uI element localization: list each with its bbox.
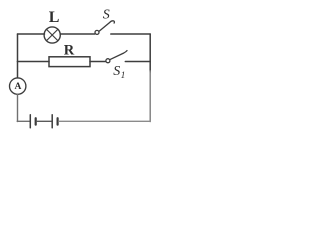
wire right vertical lower <box>149 71 151 122</box>
wire right vertical upper <box>149 34 151 72</box>
svg-text:L: L <box>49 9 60 26</box>
svg-text:A: A <box>15 82 22 92</box>
wire between battery cells <box>37 120 51 122</box>
wire switch S1 to right vertical <box>125 61 150 63</box>
wire left vertical middle (branch node to ammeter) <box>17 62 19 78</box>
wire left vertical upper (corner to branch node) <box>17 34 19 62</box>
wire ammeter to bottom-left corner <box>17 95 19 122</box>
battery cell 1 <box>30 115 35 128</box>
wire switch S to top-right corner <box>111 33 150 35</box>
battery cell 2 <box>52 115 57 128</box>
wire lamp to switch S <box>60 33 95 35</box>
svg-text:R: R <box>64 42 75 58</box>
wire battery to bottom-right corner <box>59 120 151 122</box>
switch S1 (open) <box>106 51 127 63</box>
svg-text:S: S <box>103 7 110 22</box>
lamp L <box>44 27 60 43</box>
wire top-left horizontal (node to lamp) <box>18 33 45 35</box>
wire middle branch to resistor <box>18 61 50 63</box>
resistor R <box>49 57 90 67</box>
ammeter A <box>10 78 26 94</box>
wire resistor to switch S1 <box>90 61 105 63</box>
switch S (open) <box>95 21 114 35</box>
svg-text:S1: S1 <box>113 64 125 81</box>
wire bottom-left to battery <box>17 120 29 122</box>
